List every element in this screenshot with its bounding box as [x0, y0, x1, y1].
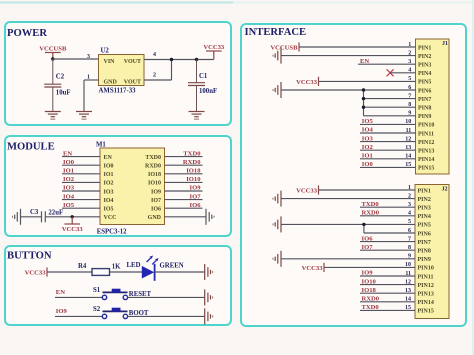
svg-text:PIN4: PIN4: [418, 214, 431, 220]
wire J2 pin4 RXD0: [360, 215, 415, 217]
svg-text:IO9: IO9: [190, 185, 202, 192]
wire VCCUSB to U2 VIN: [53, 58, 99, 60]
svg-text:IO0: IO0: [104, 164, 114, 170]
svg-text:INTERFACE: INTERFACE: [245, 27, 307, 38]
power flag VCCUSB (J1.1): [270, 42, 299, 51]
power flag VCC33 (J1.5): [296, 77, 318, 86]
svg-text:S1: S1: [93, 287, 101, 294]
svg-text:PIN1: PIN1: [418, 45, 431, 51]
junction J2 bus at pin5: [362, 223, 365, 226]
svg-text:PIN3: PIN3: [418, 63, 431, 69]
svg-text:PIN15: PIN15: [418, 309, 434, 315]
wire J2 ground bus vertical: [363, 224, 365, 233]
svg-text:10uF: 10uF: [56, 90, 71, 97]
svg-text:100nF: 100nF: [199, 88, 217, 95]
svg-text:IO6: IO6: [190, 202, 202, 209]
wire J2 pin11 IO9: [360, 275, 415, 277]
wire M1 left pin IO2: [62, 181, 100, 183]
svg-text:IO0: IO0: [63, 159, 75, 166]
svg-text:VCC33: VCC33: [25, 269, 47, 276]
wire C3 to M1 VCC: [46, 216, 101, 218]
svg-text:PIN6: PIN6: [418, 231, 431, 237]
svg-text:2: 2: [153, 73, 156, 79]
wire M1 right pin IO6: [165, 207, 203, 209]
svg-text:PIN1: PIN1: [418, 188, 431, 194]
svg-text:VCCUSB: VCCUSB: [270, 44, 298, 51]
svg-text:PIN10: PIN10: [418, 123, 434, 129]
svg-text:MODULE: MODULE: [7, 141, 55, 152]
svg-text:IO10: IO10: [186, 176, 201, 183]
svg-text:1: 1: [87, 75, 90, 81]
junction C1 tap junction: [195, 58, 198, 61]
LED LED (green): [142, 256, 159, 281]
ground S2 ground: [205, 308, 213, 324]
ground J2 pin2 ground: [273, 191, 281, 207]
power flag VCCUSB (power input): [39, 46, 67, 60]
svg-text:C3: C3: [30, 209, 39, 216]
svg-text:IO5: IO5: [104, 207, 114, 213]
svg-text:PIN5: PIN5: [418, 223, 431, 229]
wire M1 right pin IO7: [165, 199, 203, 201]
svg-text:IO3: IO3: [63, 185, 75, 192]
svg-text:PIN11: PIN11: [418, 274, 434, 280]
wire IO9 to S2: [55, 315, 102, 317]
connector J1 body: [416, 39, 450, 174]
wire U2 GND pin1 horizontal: [84, 79, 99, 81]
wire J2 pin13 IO18: [360, 292, 415, 294]
svg-text:PIN11: PIN11: [418, 131, 434, 137]
ground C3 ground: [13, 209, 21, 225]
svg-text:R4: R4: [78, 263, 87, 270]
wire S1 to ground: [128, 296, 205, 298]
svg-text:3: 3: [87, 54, 90, 60]
svg-text:PIN7: PIN7: [418, 240, 431, 246]
svg-text:C1: C1: [199, 73, 208, 80]
ground S1 ground: [205, 289, 213, 305]
ground J1 pin6 ground: [273, 82, 281, 98]
svg-text:IO1: IO1: [104, 172, 114, 178]
svg-text:VCC: VCC: [104, 215, 117, 221]
wire EN to S1: [55, 296, 102, 298]
svg-text:IO9: IO9: [56, 308, 68, 315]
wire J2 pin12 IO10: [360, 284, 415, 286]
svg-text:VCC33: VCC33: [203, 44, 225, 51]
wire J1 pin3 EN: [358, 63, 416, 65]
svg-text:M1: M1: [96, 142, 106, 149]
wire M1 right pin RXD0: [165, 164, 203, 166]
power flag VCC33 (power out): [203, 44, 225, 60]
svg-text:PIN2: PIN2: [418, 54, 431, 60]
section box INTERFACE: [241, 24, 466, 326]
junction J1 bus at pin7: [362, 97, 365, 100]
wire M1 GND pin: [165, 216, 207, 218]
svg-text:IO5: IO5: [63, 202, 75, 209]
ground J1 pin2 ground: [273, 48, 281, 64]
power flag VCC33 (module): [62, 217, 84, 233]
ground LED ground: [205, 264, 213, 280]
ground J2 pin9 ground: [273, 251, 281, 267]
power flag VCC33 (J2.10): [302, 263, 324, 272]
svg-text:TXD0: TXD0: [145, 155, 161, 161]
svg-text:PIN10: PIN10: [418, 266, 434, 272]
svg-text:IO10: IO10: [148, 181, 161, 187]
svg-text:PIN3: PIN3: [418, 206, 431, 212]
wire J1 pin11 IO4: [360, 132, 416, 134]
svg-text:PIN9: PIN9: [418, 114, 431, 120]
svg-text:EN: EN: [56, 289, 65, 296]
wire M1 right pin IO18: [165, 173, 203, 175]
wire C3 ground to C3: [21, 216, 42, 218]
svg-text:PIN12: PIN12: [418, 283, 434, 289]
svg-text:VCCUSB: VCCUSB: [39, 46, 67, 53]
wire M1 right pin TXD0: [165, 156, 203, 158]
svg-text:IO18: IO18: [186, 168, 201, 175]
svg-text:POWER: POWER: [7, 28, 47, 39]
svg-text:VCC33: VCC33: [302, 265, 324, 272]
svg-text:PIN8: PIN8: [418, 249, 431, 255]
section box MODULE: [5, 136, 231, 236]
svg-text:IO1: IO1: [63, 168, 74, 175]
svg-text:IO3: IO3: [104, 189, 114, 195]
wire J2 pin3 TXD0: [360, 206, 415, 208]
svg-text:EN: EN: [104, 155, 113, 161]
svg-text:EN: EN: [63, 150, 72, 157]
svg-text:IO2: IO2: [63, 176, 75, 183]
connector J2 body: [415, 185, 449, 319]
svg-text:VCC33: VCC33: [296, 79, 318, 86]
capacitor C3: [42, 211, 46, 222]
wire J1 pin10 IO5: [360, 123, 416, 125]
section box BUTTON: [5, 246, 231, 325]
svg-text:PIN4: PIN4: [418, 71, 431, 77]
power flag VCC33 (J2.1): [296, 185, 318, 194]
no-connect X (J1 pin4): [387, 69, 394, 76]
regulator U2 body: [99, 55, 145, 86]
wire LED to ground: [154, 271, 204, 273]
svg-text:IO6: IO6: [151, 207, 161, 213]
svg-text:AMS1117-33: AMS1117-33: [99, 88, 137, 95]
svg-text:TXD0: TXD0: [183, 150, 201, 157]
svg-text:PIN13: PIN13: [418, 292, 434, 298]
junction J1 bus at pin8: [362, 106, 365, 109]
switch S2: [102, 308, 127, 319]
wire J1 pin14 IO1: [360, 158, 416, 160]
resistor R4: [92, 269, 110, 276]
wire J1 pin2 to ground: [281, 55, 416, 57]
wire J2 pin10 VCC33: [324, 266, 415, 268]
svg-text:VOUT: VOUT: [124, 80, 141, 86]
svg-text:LED: LED: [127, 262, 141, 269]
junction VCC33 tap on VCC wire: [71, 215, 74, 218]
wire J1 pin12 IO3: [360, 141, 416, 143]
svg-text:PIN12: PIN12: [418, 140, 434, 146]
svg-text:PIN14: PIN14: [418, 300, 434, 306]
svg-text:PIN9: PIN9: [418, 257, 431, 263]
svg-text:ESPC3-12: ESPC3-12: [97, 229, 127, 236]
wire U2 VOUT pin2 vertical: [171, 60, 173, 81]
svg-text:22uF: 22uF: [48, 209, 63, 216]
svg-text:4: 4: [153, 52, 156, 58]
svg-text:VIN: VIN: [104, 59, 116, 65]
wire J2 pin15 TXD0: [360, 309, 415, 311]
svg-text:PIN8: PIN8: [418, 106, 431, 112]
wire M1 right pin IO9: [165, 190, 203, 192]
junction J1 bus at pin6: [362, 88, 365, 91]
svg-text:PIN2: PIN2: [418, 197, 431, 203]
svg-text:VCC33: VCC33: [296, 187, 318, 194]
wire J2 pin5 to ground: [281, 223, 415, 225]
svg-text:J2: J2: [442, 187, 448, 193]
ground U2 GND: [76, 112, 92, 120]
svg-text:BUTTON: BUTTON: [7, 251, 52, 262]
wire J2 pin1 VCC33: [319, 189, 416, 191]
ESP module M1 body: [100, 148, 165, 225]
ground M1 ground: [206, 209, 214, 225]
svg-text:IO7: IO7: [190, 193, 202, 200]
wire R4 to LED: [110, 271, 143, 273]
ground C2 ground: [45, 112, 61, 120]
wire J2 pin14 RXD0: [360, 301, 415, 303]
wire U2 VOUT pin2 horizontal: [144, 79, 172, 81]
svg-text:VOUT: VOUT: [124, 59, 141, 65]
wire VCC33 to R4: [47, 271, 92, 273]
wire J1 pin4 stub: [390, 72, 416, 74]
svg-text:PIN6: PIN6: [418, 88, 431, 94]
junction VCCUSB node: [51, 57, 54, 60]
svg-text:RXD0: RXD0: [183, 159, 201, 166]
capacitor C2: [44, 59, 61, 112]
wire J1 pin6 to ground: [281, 89, 416, 91]
svg-text:GREEN: GREEN: [160, 263, 184, 270]
svg-text:IO9: IO9: [151, 189, 161, 195]
wire M1 left pin IO4: [62, 199, 100, 201]
wire J1 ground bus vertical: [363, 90, 365, 116]
ground C1 ground: [189, 112, 205, 120]
wire M1 left pin IO1: [62, 173, 100, 175]
svg-text:PIN7: PIN7: [418, 97, 431, 103]
wire M1 left pin IO0: [62, 164, 100, 166]
wire J1 pin5 VCC33: [319, 80, 416, 82]
section box POWER: [5, 22, 231, 125]
wire J2 pin6 stub: [364, 232, 415, 234]
wire M1 right pin IO10: [165, 181, 203, 183]
wire J1 pin1 VCCUSB: [299, 46, 416, 48]
power flag VCC33 (button row): [25, 267, 47, 276]
wire J1 pin8 stub: [364, 106, 416, 108]
svg-text:IO18: IO18: [148, 172, 161, 178]
svg-text:U2: U2: [101, 48, 110, 55]
wire J2 pin7 IO6: [360, 241, 415, 243]
wire U2 GND pin1 vertical: [83, 80, 85, 112]
wire J1 pin15 IO0: [360, 166, 416, 168]
svg-text:RXD0: RXD0: [145, 164, 161, 170]
wire J1 pin7 stub: [364, 98, 416, 100]
svg-text:S2: S2: [93, 306, 101, 313]
svg-text:1K: 1K: [112, 264, 121, 271]
wire M1 left pin IO5: [62, 207, 100, 209]
wire U2 VOUT pin4 to VCC33: [144, 59, 214, 61]
svg-text:C2: C2: [56, 74, 65, 81]
svg-text:PIN14: PIN14: [418, 157, 434, 163]
svg-text:PIN13: PIN13: [418, 149, 434, 155]
wire J1 pin13 IO2: [360, 149, 416, 151]
wire M1 left pin EN: [62, 156, 100, 158]
svg-text:GND: GND: [148, 215, 162, 221]
svg-text:IO2: IO2: [104, 181, 114, 187]
svg-text:VCC33: VCC33: [62, 226, 84, 233]
switch S1: [102, 289, 127, 300]
wire S2 to ground: [128, 315, 205, 317]
wire J1 pin9 stub: [364, 115, 416, 117]
wire J2 pin9 to ground: [281, 258, 415, 260]
wire M1 left pin IO3: [62, 190, 100, 192]
svg-text:J1: J1: [442, 41, 448, 47]
svg-text:IO4: IO4: [63, 193, 75, 200]
junction VOUT pins junction: [170, 58, 173, 61]
svg-text:IO4: IO4: [104, 198, 114, 204]
svg-text:PIN5: PIN5: [418, 80, 431, 86]
svg-text:IO7: IO7: [151, 198, 161, 204]
svg-text:PIN15: PIN15: [418, 166, 434, 172]
ground J2 pin5 ground: [273, 216, 281, 232]
capacitor C1: [188, 60, 205, 112]
wire J2 pin2 to ground: [281, 198, 415, 200]
svg-text:GND: GND: [104, 80, 118, 86]
wire J2 pin8 IO7: [360, 249, 415, 251]
